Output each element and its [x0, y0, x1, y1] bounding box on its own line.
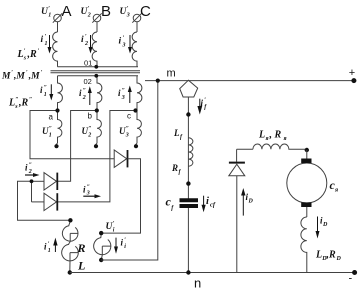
label U'2	[81, 6, 91, 19]
svg-text:L: L	[77, 259, 85, 273]
node a	[55, 108, 59, 112]
diode V3	[114, 150, 127, 167]
motor brush top	[301, 159, 311, 164]
label U''1	[42, 126, 52, 139]
svg-text:2: 2	[28, 169, 32, 175]
svg-text:m: m	[167, 68, 176, 80]
label i''3 sec	[118, 88, 125, 101]
label if	[201, 98, 208, 111]
terminal plus	[351, 78, 356, 83]
svg-text:L: L	[258, 130, 265, 141]
label i''2 sec	[79, 88, 86, 101]
svg-text:i: i	[206, 196, 209, 207]
svg-text:″: ″	[126, 126, 129, 132]
node load bottom	[68, 270, 72, 274]
wire motor top	[306, 150, 308, 159]
svg-text:3: 3	[125, 133, 129, 139]
label U''3	[119, 126, 129, 139]
svg-text:c: c	[127, 111, 131, 120]
svg-text:2: 2	[87, 13, 91, 19]
label U'1	[41, 6, 51, 19]
node U'i bottom	[99, 258, 103, 262]
motor brush bottom	[301, 202, 311, 207]
current arrow i''3 right at diode	[83, 194, 101, 198]
svg-text:1: 1	[48, 248, 51, 254]
label c motor	[330, 178, 339, 194]
svg-text:,R: ,R	[326, 250, 337, 261]
terminal A	[53, 13, 62, 32]
diode V1	[32, 173, 58, 190]
svg-text:R: R	[77, 241, 86, 255]
svg-text:1: 1	[45, 41, 48, 47]
node b	[95, 108, 99, 112]
node m	[156, 79, 160, 83]
label i'i	[121, 238, 127, 251]
label La Ra	[258, 130, 287, 143]
svg-text:,M: ,M	[13, 72, 25, 82]
svg-text:L: L	[8, 98, 15, 109]
label iD motor	[320, 216, 328, 229]
label i''3 at diode	[83, 185, 90, 197]
svg-text:, R: , R	[269, 130, 282, 141]
svg-text:2: 2	[87, 133, 91, 139]
svg-text:D: D	[336, 256, 342, 262]
label i'2	[81, 34, 88, 47]
armature branch wire	[237, 148, 253, 150]
pentagon symbol	[180, 80, 198, 97]
svg-text:2: 2	[82, 95, 86, 101]
node diode anode junction	[30, 179, 34, 183]
svg-text:3: 3	[121, 95, 125, 101]
capacitor Cf	[180, 200, 199, 206]
svg-text:,R: ,R	[27, 49, 38, 60]
node filter top	[186, 112, 190, 116]
svg-text:1: 1	[49, 133, 52, 139]
secondary winding phase B upper	[97, 76, 102, 111]
node U''2 end	[94, 144, 98, 148]
svg-text:,M: ,M	[28, 72, 40, 82]
svg-text:″: ″	[29, 97, 32, 103]
svg-text:A: A	[62, 3, 72, 20]
current arrow i'2	[89, 35, 93, 54]
wire rail to tap b	[58, 111, 97, 182]
svg-text:D: D	[322, 222, 328, 228]
current arrow icf down at capacitor	[202, 196, 206, 213]
svg-text:i: i	[81, 35, 84, 45]
svg-text:B: B	[101, 3, 111, 20]
motor armature circle	[287, 163, 327, 203]
svg-text:a: a	[49, 113, 54, 122]
svg-text:″: ″	[29, 163, 32, 169]
svg-text:3: 3	[122, 43, 126, 49]
terminal B	[92, 13, 101, 32]
svg-text:-: -	[349, 273, 353, 285]
svg-text:″: ″	[44, 85, 47, 91]
svg-text:3: 3	[86, 191, 90, 197]
label LD RD	[315, 250, 342, 263]
svg-text:1: 1	[48, 13, 51, 19]
smoothing reactor LD RD	[301, 217, 307, 273]
svg-text:M: M	[1, 72, 11, 82]
wire motor bottom to LD coil	[306, 207, 308, 217]
node 01	[94, 65, 98, 69]
svg-text:L: L	[17, 49, 24, 60]
svg-text:я: я	[334, 188, 338, 194]
current arrow iD down motor	[316, 217, 320, 239]
primary winding phase C	[132, 32, 137, 67]
svg-text:я: я	[265, 136, 269, 142]
current arrow i''2 up	[88, 86, 92, 105]
secondary winding phase A lower U''1	[56, 111, 62, 146]
svg-text:n: n	[194, 276, 201, 291]
current arrow if down at pentagon	[197, 99, 202, 115]
label L''s,R''	[8, 97, 32, 110]
label U'3	[120, 6, 130, 19]
armature choke La Ra	[253, 144, 307, 149]
label Rf	[171, 163, 182, 176]
label i''2 at diode	[25, 163, 32, 176]
primary winding phase A	[53, 32, 58, 67]
freewheeling diode VD	[229, 149, 245, 272]
label i'3	[119, 36, 126, 49]
svg-text:R: R	[171, 163, 178, 173]
node U'i top	[99, 231, 103, 235]
current arrow i'1	[48, 35, 52, 54]
current arrow i''1 down	[49, 84, 53, 100]
svg-text:1: 1	[44, 92, 47, 98]
svg-text:3: 3	[126, 13, 130, 19]
secondary winding phase A upper	[58, 76, 63, 111]
wire diode anode node to load	[18, 181, 71, 220]
wire anode node to diode V2	[31, 181, 33, 202]
label Lf	[173, 128, 183, 141]
secondary winding phase C upper	[137, 76, 142, 111]
svg-text:b: b	[88, 112, 93, 121]
current arrow i'3	[128, 35, 132, 54]
primary neutral bus 01	[58, 66, 139, 68]
diode V2	[32, 193, 58, 210]
current arrow i'i load down	[114, 238, 118, 254]
svg-text:02: 02	[84, 77, 92, 86]
secondary winding phase C lower U''3	[136, 111, 142, 146]
svg-text:2: 2	[84, 41, 88, 47]
svg-text:+: +	[349, 67, 355, 79]
svg-text:,R: ,R	[18, 98, 29, 109]
current arrow i'1 load up	[53, 238, 57, 252]
svg-text:L: L	[173, 128, 180, 138]
secondary neutral bus 02	[58, 75, 139, 77]
label L's,R'	[17, 49, 40, 62]
wire capacitor to n bus	[187, 208, 189, 273]
svg-text:″: ″	[122, 88, 125, 94]
svg-text:i: i	[119, 37, 122, 47]
svg-text:L: L	[315, 250, 322, 261]
wire pentagon to filter	[187, 97, 189, 199]
svg-text:01: 01	[84, 59, 92, 68]
node U''3 end	[134, 144, 138, 148]
label icf	[206, 196, 216, 209]
node filter mid	[186, 181, 190, 185]
current arrow i''3 up	[128, 86, 132, 104]
load coil U'i	[94, 233, 111, 260]
label iD freewheel	[246, 192, 254, 205]
svg-text:″: ″	[88, 126, 91, 132]
terminal C	[132, 13, 141, 32]
node motor top	[305, 148, 309, 152]
wire U'i bottom to m rail	[101, 81, 158, 260]
label Cf	[166, 195, 175, 212]
svg-text:cf: cf	[210, 202, 216, 209]
node U''1 end	[54, 144, 58, 148]
label M',M',M'	[1, 70, 43, 82]
svg-text:″: ″	[49, 126, 52, 132]
current arrow iD up freewheel	[241, 188, 245, 216]
load coil R L	[62, 220, 79, 272]
svg-text:D: D	[248, 199, 254, 205]
label i''1	[40, 85, 47, 98]
node load top	[68, 218, 72, 222]
node 02	[94, 74, 98, 78]
wire tap a to left rail	[30, 111, 114, 159]
svg-text:″: ″	[83, 88, 86, 94]
wire rail to tap c	[58, 111, 136, 202]
svg-text:C: C	[140, 3, 151, 20]
svg-text:i: i	[41, 35, 44, 45]
primary winding phase B	[92, 32, 97, 67]
wire diode V3 cathode to load branch U'i	[101, 159, 140, 233]
m bus	[145, 80, 354, 82]
secondary winding phase B lower U''2	[96, 111, 102, 146]
transformer core	[51, 70, 141, 72]
n bus	[70, 272, 355, 274]
label U''2	[82, 126, 92, 139]
svg-text:я: я	[283, 136, 287, 142]
node n filter	[186, 270, 190, 274]
label U'i	[106, 221, 115, 234]
current arrow i''2 right at diode	[25, 173, 40, 177]
label i'1	[41, 34, 48, 47]
node c	[133, 108, 137, 112]
terminal minus	[352, 270, 357, 275]
label i'1 load	[44, 242, 51, 255]
filter choke Lf Rf	[188, 138, 193, 166]
